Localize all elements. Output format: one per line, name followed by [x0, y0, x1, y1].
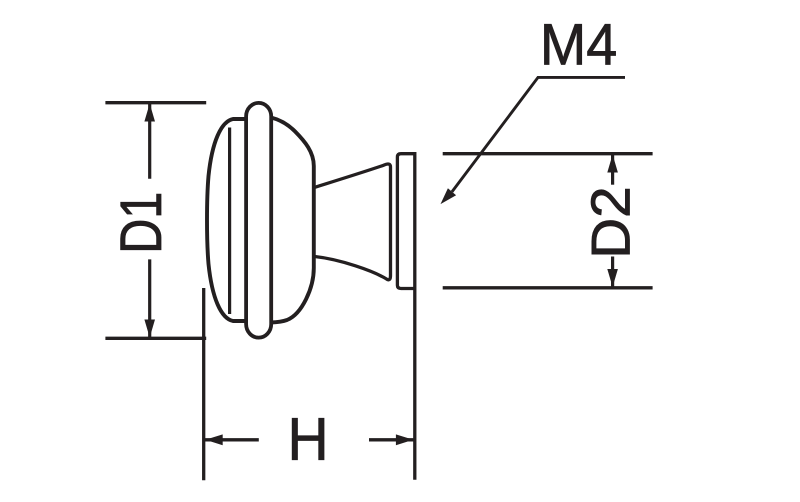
knob head outline left	[207, 119, 247, 321]
H right extension line (also base cap right edge)	[413, 152, 416, 480]
dimension D1 line lower segment	[148, 259, 151, 337]
D2 top extension line	[443, 152, 653, 155]
svg-text:H: H	[288, 407, 329, 474]
svg-text:D1: D1	[110, 192, 174, 254]
H dimension line right segment	[369, 438, 414, 441]
dimension D2 arrow down	[607, 269, 618, 287]
dimension D2 line lower segment	[611, 257, 614, 287]
dimension D1 arrow down	[144, 320, 155, 338]
stem profile with rim line	[314, 164, 391, 280]
knob band (front ring)	[246, 103, 271, 338]
H dimension line left segment	[205, 438, 259, 441]
dimension D2 line upper segment	[611, 155, 614, 185]
H arrow right	[396, 434, 413, 445]
H left extension line	[202, 288, 205, 480]
M4 leader arrowhead	[441, 188, 457, 204]
dimension D1 top tick	[105, 101, 206, 104]
svg-text:M4: M4	[540, 14, 617, 78]
dimension D1 line upper segment	[148, 104, 151, 179]
H arrow left	[205, 434, 222, 445]
D2 bottom extension line	[443, 286, 653, 289]
svg-text:D2: D2	[581, 186, 642, 258]
M4 leader line	[452, 77, 625, 191]
knob head outline right	[271, 118, 314, 323]
base cap plate	[397, 154, 414, 289]
dimension D1 arrow up	[144, 104, 155, 122]
dimension D2 arrow up	[607, 155, 618, 173]
band inner edge line	[228, 128, 231, 315]
dimension D1 bottom tick	[105, 337, 206, 340]
